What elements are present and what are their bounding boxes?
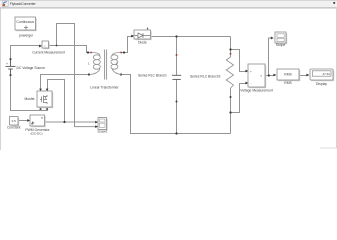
svg-text:(DC-DC): (DC-DC) — [30, 131, 42, 135]
window close mark — [333, 2, 335, 4]
svg-text:+: + — [250, 70, 252, 74]
wire Diode out to node top — [151, 36, 231, 38]
port marks red — [90, 52, 231, 56]
svg-text:Series RLC Branch2: Series RLC Branch2 — [190, 75, 221, 79]
node transformer port2 dot — [123, 51, 125, 53]
left winding — [90, 53, 101, 75]
svg-text:Voltage Measurement: Voltage Measurement — [240, 88, 273, 92]
diode D — [134, 27, 152, 44]
window right border — [335, 8, 337, 148]
wire PWM out to Scope1 input 1 — [45, 121, 96, 123]
node capacitor bottom junction — [175, 132, 177, 134]
node capacitor top junction — [175, 35, 177, 37]
svg-text:47.62: 47.62 — [322, 72, 330, 76]
svg-text:FlybackConverter: FlybackConverter — [10, 2, 37, 6]
node scope tap junction — [268, 74, 270, 76]
junction node dots — [10, 35, 270, 134]
wire capacitor branch vertical — [176, 37, 178, 76]
svg-text:Mosfet: Mosfet — [24, 97, 34, 101]
DC voltage source — [6, 60, 16, 74]
node cap bottom port — [176, 101, 178, 103]
svg-text:DC Voltage Source: DC Voltage Source — [17, 66, 46, 70]
svg-text:0.5: 0.5 — [12, 119, 17, 123]
svg-text:Scope1: Scope1 — [97, 130, 108, 134]
node CM signal tap — [56, 45, 58, 47]
svg-text:RMS: RMS — [284, 73, 292, 77]
wire Mosfet source pin stub — [40, 108, 42, 111]
wire Voltage Measurement v out to RMS — [265, 75, 275, 77]
window icon (Simulink) — [2, 1, 8, 7]
node transformer bottom-left dot — [88, 73, 90, 75]
voltage measurement VM — [240, 64, 273, 92]
right winding — [111, 53, 122, 75]
input arrowheads — [27, 35, 309, 128]
wire Mosfet m pin stub — [47, 108, 49, 111]
node DC source - port — [10, 74, 12, 76]
svg-text:RMS: RMS — [284, 81, 292, 85]
svg-text:powergui: powergui — [19, 34, 33, 38]
window title bar — [0, 0, 337, 8]
node VM- tap junction — [229, 111, 231, 113]
resistor series RLC branch2 — [226, 57, 233, 88]
svg-text:-: - — [250, 82, 251, 86]
capacitor series RLC branch — [172, 75, 181, 79]
svg-text:+: + — [6, 62, 8, 66]
canvas background — [0, 0, 337, 150]
wire tap to Scope — [269, 38, 273, 76]
core — [105, 50, 107, 80]
wire Current Measurement i signal to Scope1 input 2 — [57, 24, 96, 127]
svg-text:Series RLC Branch: Series RLC Branch — [138, 73, 167, 77]
wire Current Measurement out to transformer port 1 — [49, 46, 91, 53]
node transformer port1 dot — [87, 51, 89, 53]
node DC source + port — [10, 58, 12, 60]
wire bottom return to transformer secondary — [122, 75, 231, 134]
node VM+ tap junction — [229, 48, 231, 50]
node transformer bottom-right dot — [120, 73, 122, 75]
wire transformer port 2 to Diode — [122, 37, 134, 53]
wire RMS out to Display — [300, 75, 309, 77]
mosfet Q — [24, 91, 53, 108]
PWM generator block — [25, 115, 50, 135]
scope — [275, 32, 287, 47]
wire node to Voltage Measurement + — [231, 50, 248, 72]
scope1 — [97, 118, 108, 134]
svg-text:Current Measurement: Current Measurement — [32, 51, 65, 55]
linear transformer — [88, 50, 122, 90]
svg-text:Display: Display — [316, 82, 327, 86]
RMS block — [277, 69, 300, 85]
svg-text:Diode: Diode — [138, 41, 147, 45]
svg-text:Constant: Constant — [7, 126, 20, 130]
wire node to Voltage Measurement - — [231, 84, 248, 113]
svg-text:Continuous: Continuous — [16, 20, 34, 24]
svg-text:P: P — [41, 116, 43, 120]
wire DC source - to Mosfet source — [11, 75, 49, 111]
wire resistor branch vertical — [230, 37, 232, 58]
window left border — [0, 8, 1, 150]
wire DC source + to Current Measurement — [11, 46, 42, 60]
constant block — [7, 117, 20, 130]
current measurement CM — [32, 41, 65, 55]
wire transformer primary bottom to Mosfet drain — [41, 75, 90, 91]
node resistor bottom port — [230, 96, 232, 98]
powergui block — [15, 17, 37, 38]
node gate junction — [63, 121, 65, 123]
wire PWM gate signal to Mosfet g — [48, 80, 65, 123]
svg-text:Linear Transformer: Linear Transformer — [90, 86, 119, 90]
wire Constant to PWM Generator — [18, 120, 29, 122]
display block — [310, 69, 334, 86]
svg-text:Scope: Scope — [276, 43, 286, 47]
